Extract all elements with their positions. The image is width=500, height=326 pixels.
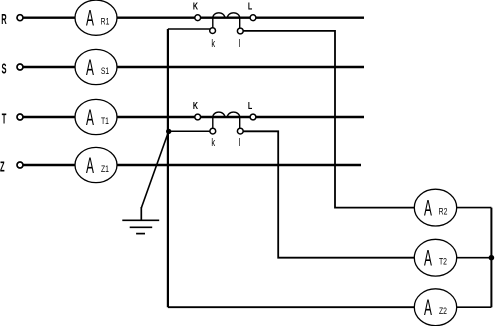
ammeter A T1 — [75, 99, 117, 134]
junction neutral node — [166, 129, 171, 134]
svg-text:K: K — [193, 0, 199, 12]
wire phase R bus — [24, 17, 365, 19]
svg-text:R1: R1 — [101, 17, 110, 27]
wire A T2 to return vertical — [457, 257, 492, 259]
current transformer CT1 — [195, 13, 256, 34]
svg-text:l: l — [239, 36, 241, 49]
ammeter A S1 — [75, 49, 117, 84]
wire bottom to A Z2 — [168, 306, 415, 308]
ammeter A R1 — [75, 0, 117, 35]
wire CT2 l to A T2 — [240, 131, 415, 257]
wire return vertical — [490, 208, 492, 308]
svg-text:A: A — [424, 295, 432, 320]
svg-text:Z1: Z1 — [101, 164, 109, 174]
svg-text:A: A — [424, 196, 432, 221]
svg-text:R: R — [1, 13, 7, 28]
svg-text:L: L — [248, 100, 253, 112]
wire phase Z bus — [24, 164, 362, 166]
ammeter A Z2 — [414, 289, 456, 326]
svg-text:S: S — [1, 62, 6, 77]
svg-text:k: k — [211, 36, 215, 49]
wire CT1 k to neutral — [168, 28, 213, 30]
svg-text:A: A — [86, 105, 94, 130]
ammeter A R2 — [414, 189, 456, 226]
svg-text:L: L — [248, 0, 253, 12]
wire A Z2 to return vertical — [457, 306, 492, 308]
svg-text:R2: R2 — [439, 207, 448, 217]
wire phase T bus — [24, 116, 365, 118]
terminal T — [17, 114, 23, 120]
svg-text:S1: S1 — [101, 66, 110, 76]
wire phase S bus — [24, 66, 365, 68]
svg-text:A: A — [86, 153, 94, 178]
svg-text:T: T — [2, 112, 7, 127]
wire earth lead diagonal — [141, 132, 168, 208]
ground — [122, 207, 159, 234]
svg-text:l: l — [239, 135, 241, 148]
wire CT1 l to A R2 — [240, 31, 415, 208]
svg-text:Z2: Z2 — [439, 306, 447, 316]
junction return node — [489, 255, 495, 261]
wire CT2 k to neutral — [168, 130, 213, 132]
svg-text:T2: T2 — [439, 257, 447, 267]
svg-text:A: A — [86, 55, 94, 80]
svg-text:T1: T1 — [101, 116, 109, 126]
terminal S — [17, 64, 23, 70]
terminal Z — [17, 162, 23, 168]
wire A R2 to return vertical — [457, 207, 492, 209]
current transformer CT2 — [195, 112, 256, 134]
svg-text:A: A — [424, 246, 432, 271]
svg-text:k: k — [211, 135, 215, 148]
svg-text:Z: Z — [0, 160, 5, 175]
svg-text:K: K — [193, 100, 199, 112]
terminal R — [17, 15, 23, 21]
svg-text:A: A — [86, 6, 94, 31]
wire neutral vertical — [167, 29, 169, 307]
ammeter A Z1 — [75, 147, 117, 182]
ammeter A T2 — [414, 239, 456, 276]
